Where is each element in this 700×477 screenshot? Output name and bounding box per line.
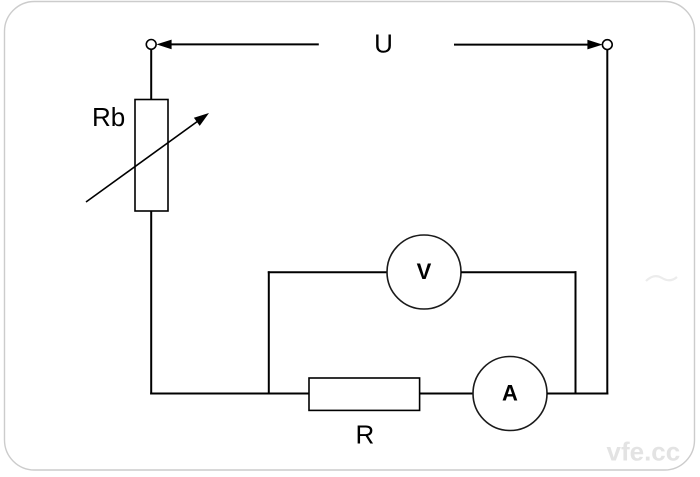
wire: voltmeter branch left riser bbox=[268, 271, 270, 393]
wire: bottom rail from corner to resistor R bbox=[150, 393, 309, 395]
svg-text:A: A bbox=[502, 381, 518, 406]
resistor R body bbox=[309, 378, 420, 410]
svg-text:V: V bbox=[417, 259, 432, 284]
svg-text:vfe.cc: vfe.cc bbox=[607, 437, 681, 467]
U dimension arrow (left, pointing to left terminal) bbox=[156, 40, 318, 50]
rheostat Rb adjustment arrow bbox=[86, 113, 209, 202]
svg-text:U: U bbox=[374, 29, 393, 59]
U dimension arrow (right, pointing to right terminal) bbox=[454, 40, 603, 50]
svg-text:R: R bbox=[356, 420, 375, 450]
wire: ammeter A to right rail bbox=[547, 393, 608, 395]
svg-text:Rb: Rb bbox=[92, 102, 125, 132]
wire: voltmeter branch right riser bbox=[575, 271, 577, 394]
node: left supply terminal bbox=[146, 40, 156, 50]
wire: voltmeter branch top-left horizontal bbox=[268, 271, 387, 273]
voltmeter V bbox=[387, 235, 461, 309]
rheostat Rb body bbox=[135, 100, 168, 212]
node: right supply terminal bbox=[602, 40, 612, 50]
wire: resistor R to ammeter A bbox=[420, 393, 473, 395]
ammeter A bbox=[473, 357, 547, 431]
watermark vfe.cc bbox=[607, 276, 681, 466]
wire: right rail from right terminal down bbox=[606, 50, 608, 395]
wire: rheostat bottom to bottom-left corner bbox=[150, 211, 152, 395]
wire: voltmeter right horizontal bbox=[461, 271, 577, 273]
wire: left terminal to rheostat top bbox=[150, 49, 152, 99]
